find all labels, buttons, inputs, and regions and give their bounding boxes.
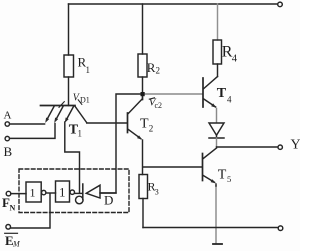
svg-text:A: A	[4, 110, 12, 122]
svg-text:N: N	[10, 204, 16, 213]
svg-text:T: T	[217, 86, 227, 101]
svg-text:1: 1	[78, 129, 83, 139]
svg-text:D1: D1	[80, 96, 90, 105]
svg-text:3: 3	[155, 188, 159, 197]
svg-text:4: 4	[227, 95, 232, 105]
svg-text:c2: c2	[155, 101, 163, 110]
svg-text:T: T	[218, 168, 227, 183]
svg-text:2: 2	[156, 66, 161, 76]
svg-text:1: 1	[86, 65, 91, 75]
svg-text:2: 2	[149, 124, 154, 134]
svg-text:M: M	[12, 240, 21, 249]
svg-text:T: T	[140, 117, 149, 132]
svg-text:1: 1	[30, 186, 36, 200]
svg-text:B: B	[4, 144, 13, 159]
svg-text:D: D	[104, 193, 113, 208]
svg-text:R: R	[147, 60, 156, 75]
svg-text:1: 1	[59, 185, 66, 200]
svg-text:5: 5	[227, 174, 231, 184]
svg-text:4: 4	[232, 54, 238, 65]
svg-text:Y: Y	[291, 138, 301, 153]
